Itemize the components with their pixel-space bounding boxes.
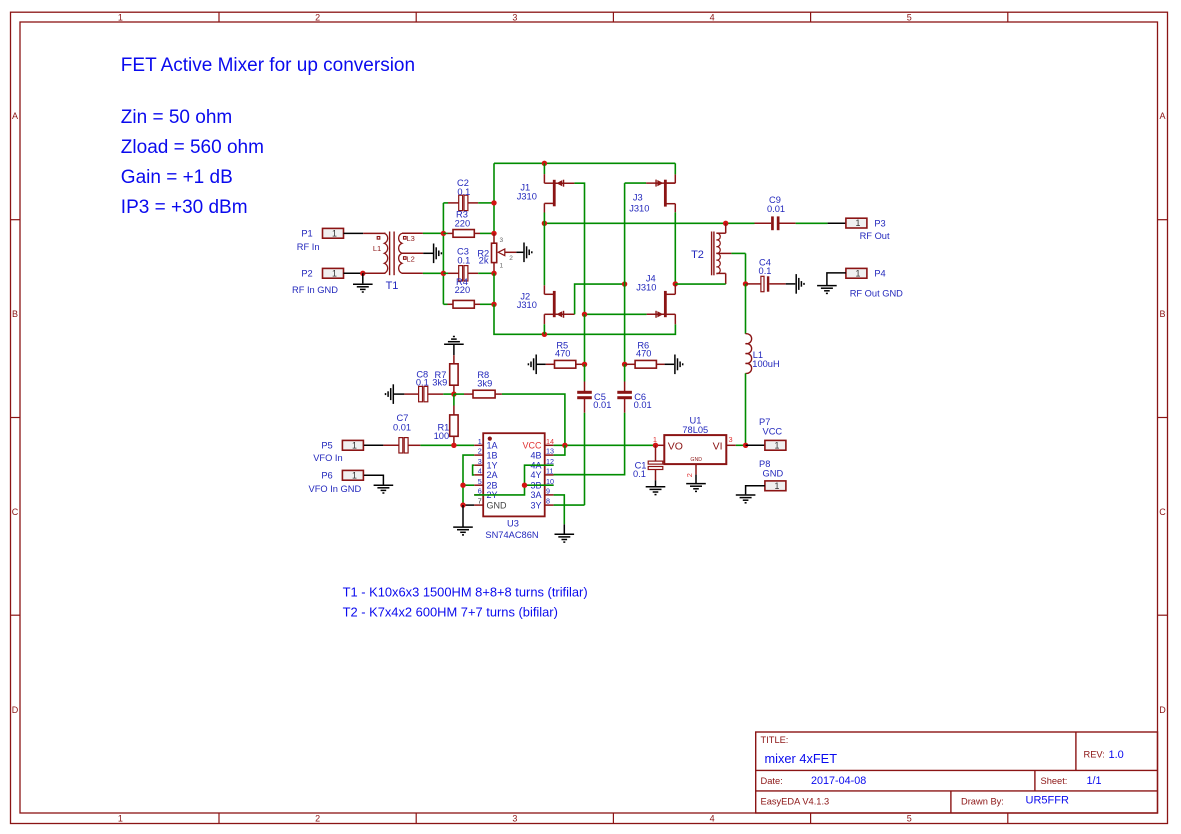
node J1 drain rail [542,161,547,166]
svg-text:220: 220 [455,219,471,229]
wire P4 to ground [827,273,846,285]
svg-text:0.01: 0.01 [767,204,785,214]
wire J4 source [674,314,676,324]
svg-text:2: 2 [315,12,320,22]
svg-text:2: 2 [315,813,320,823]
node J1-J4 gate junction [582,312,587,317]
svg-text:P3: P3 [874,219,885,229]
node J3-source J4-drain T2-bottom [673,281,678,286]
wire bottom rail [494,304,675,334]
svg-text:100: 100 [434,431,450,441]
svg-text:1: 1 [118,12,123,22]
node R3-right R2-3 [491,231,496,236]
wire R1 bottom [453,436,455,445]
node B T1-bot C3 [441,271,446,276]
svg-text:0.1: 0.1 [759,266,772,276]
wire C9 left [755,222,772,224]
svg-text:4: 4 [710,813,715,823]
wire J2J3 gate column [624,183,626,364]
wire right column lower [493,273,495,304]
svg-text:1: 1 [118,813,123,823]
ground at R6 [675,355,683,375]
wire J1 gate net [574,183,584,314]
svg-text:T2: T2 [691,249,704,261]
node bias R7 R8 R1 [451,391,456,396]
svg-text:1: 1 [855,268,860,278]
svg-text:5: 5 [478,477,482,486]
wire T2 top pin [725,223,727,233]
svg-text:1: 1 [332,268,337,278]
svg-text:RF In GND: RF In GND [292,285,338,295]
svg-text:GND: GND [763,469,784,479]
svg-text:9: 9 [546,487,550,496]
svg-text:FET Active Mixer for up conver: FET Active Mixer for up conversion [121,55,415,76]
ground at C1 [646,487,666,495]
svg-text:P5: P5 [321,440,332,450]
svg-text:2B: 2B [487,480,498,490]
wire U1 VI to P7 [736,444,746,446]
ground at R2 wiper [516,251,523,253]
svg-text:100uH: 100uH [752,359,779,369]
wire R3 left [443,232,447,234]
potentiometer R2 [493,233,495,243]
wire T2 center tap [731,252,745,254]
resistor R1 [453,394,455,405]
capacitor C4 [761,276,764,291]
transistor J2 [553,291,556,317]
transistor J4 [664,291,667,317]
svg-text:1/1: 1/1 [1087,775,1102,787]
svg-text:1: 1 [653,435,657,444]
node U3 3B junction [522,483,527,488]
svg-text:T1: T1 [386,280,399,292]
svg-text:1: 1 [332,228,337,238]
svg-text:SN74AC86N: SN74AC86N [485,530,538,540]
ground above R7 [444,337,464,345]
svg-text:Zload = 560 ohm: Zload = 560 ohm [121,137,264,158]
wire R5 right [576,363,585,365]
svg-text:2017-04-08: 2017-04-08 [811,775,866,787]
wire J4 drain [674,284,676,294]
wire R6 left [625,363,636,365]
svg-text:0.1: 0.1 [457,187,470,197]
svg-text:J310: J310 [629,204,649,214]
wire J1 drain [543,163,545,174]
svg-text:TITLE:: TITLE: [761,735,789,745]
svg-text:1: 1 [500,262,504,269]
svg-text:0.01: 0.01 [393,422,411,432]
svg-text:4B: 4B [530,450,541,460]
svg-text:UR5FFR: UR5FFR [1026,795,1069,807]
svg-text:13: 13 [546,447,554,456]
svg-text:VO: VO [668,440,683,452]
port P3 [846,218,867,228]
svg-text:Zin = 50 ohm: Zin = 50 ohm [121,107,232,128]
wire U3 pins 2-5-7 ground [463,455,474,505]
svg-text:P7: P7 [759,417,770,427]
wire P6 to ground [364,475,384,484]
resistor R8 [473,390,495,398]
svg-text:14: 14 [546,437,554,446]
svg-text:VCC: VCC [763,427,783,437]
wire R5 left [536,363,546,365]
svg-text:P1: P1 [301,228,312,238]
svg-text:4: 4 [478,467,482,476]
svg-text:1B: 1B [487,450,498,460]
svg-text:3k9: 3k9 [432,378,447,388]
svg-text:J310: J310 [517,191,537,201]
wire C5 bottom [584,399,586,413]
node C3-right R2-1 [491,271,496,276]
svg-text:3: 3 [729,435,733,444]
svg-text:1: 1 [774,481,779,491]
wire U3 pin14 VCC rail [554,444,656,446]
wire L1 top [745,284,747,334]
node U3 pin7 junction [460,502,465,507]
svg-text:mixer 4xFET: mixer 4xFET [765,751,838,766]
wire P8 to ground [746,486,765,495]
title block [756,732,1158,813]
svg-text:A: A [1159,111,1165,121]
svg-text:L3: L3 [407,234,415,243]
wire J2 gate net [575,284,625,314]
wire U3 1Y to 2A [473,465,475,475]
svg-text:3: 3 [500,237,504,244]
node R5 C5 gate [582,362,587,367]
svg-text:1Y: 1Y [487,460,498,470]
wire C3 left [443,272,448,274]
capacitor C5 [577,391,592,394]
ground at U3 left [462,505,464,526]
svg-text:3A: 3A [530,490,541,500]
wire J3 gate [625,182,647,184]
resistor R6 [635,360,656,368]
wire C9 to P3 [779,222,795,224]
svg-text:1: 1 [352,470,357,480]
ground at R5 [528,355,536,375]
inductor L1 [746,334,752,374]
svg-text:1: 1 [478,437,482,446]
wire R4 left [443,303,447,305]
wire P1 to T1 [344,232,364,234]
svg-text:T1 - K10x6x3 1500HM 8+8+8 turn: T1 - K10x6x3 1500HM 8+8+8 turns (trifila… [343,585,588,600]
wire R4 right [474,303,480,305]
node VCC R8 pin13 [562,443,567,448]
transistor J3 [664,180,667,207]
wire C8 left [393,393,404,395]
wire P5 to C7 [364,444,384,446]
transformer T1 [384,233,387,273]
wire R3 right [474,232,480,234]
port P5 [342,440,363,450]
wire left column [442,203,444,304]
wire U3 3A to ground [554,495,565,524]
svg-text:B: B [1159,309,1165,319]
capacitor C1 [655,445,657,461]
wire C4 left [746,283,762,285]
svg-text:VFO In: VFO In [313,453,342,463]
svg-text:L1: L1 [373,244,381,253]
svg-text:1A: 1A [487,441,498,451]
svg-text:5: 5 [907,12,912,22]
wire U3 pin13 to VCC [554,445,565,455]
wire C6 top [624,364,626,381]
svg-text:P8: P8 [759,459,770,469]
wire J3 source [674,204,676,213]
svg-text:C: C [12,507,19,517]
wire T2 bottom pin [725,273,727,284]
svg-text:0.1: 0.1 [416,378,429,388]
svg-text:J3: J3 [633,193,643,203]
svg-text:78L05: 78L05 [682,425,708,435]
wire J1 source [543,203,545,212]
capacitor C8 [419,386,423,401]
wire T1 bottom to node [423,272,444,274]
wire J2 source [543,314,545,324]
wire to R8 [454,393,464,395]
svg-text:RF Out GND: RF Out GND [850,289,903,299]
svg-text:D: D [12,705,19,715]
wire T1 top to node [423,232,444,234]
resistor R3 [453,230,474,238]
svg-text:220: 220 [455,285,471,295]
node U1 VI L1 P7 [743,443,748,448]
IC U3 SN74AC86N [483,433,545,516]
transformer T2 [711,232,713,276]
wire T2 bottom to J4 [675,283,725,285]
svg-text:C: C [1159,507,1166,517]
svg-text:Date:: Date: [761,776,783,786]
svg-text:GND: GND [690,457,702,463]
svg-text:3k9: 3k9 [477,379,492,389]
svg-text:3: 3 [478,457,482,466]
svg-text:3Y: 3Y [530,500,541,510]
wire C2 right [468,202,479,204]
node A T1-top R3 C2 [441,231,446,236]
node J1-source J2-drain [542,221,547,226]
resistor R7 [453,355,455,364]
svg-text:4: 4 [710,12,715,22]
svg-text:P4: P4 [874,269,885,279]
svg-text:0.01: 0.01 [634,400,652,410]
wire junction to T1 [363,272,386,274]
svg-text:VI: VI [713,440,723,452]
svg-text:470: 470 [636,349,652,359]
wire P2 to junction [344,272,363,274]
wire top rail [494,162,675,164]
ground at C4 [796,274,804,294]
wire J4 gate [585,313,647,315]
svg-text:1: 1 [855,218,860,228]
node P2 junction [360,271,365,276]
svg-text:IP3 = +30 dBm: IP3 = +30 dBm [121,197,248,218]
capacitor C9 [771,216,774,230]
ground at P6 [374,485,394,493]
svg-text:VCC: VCC [522,441,542,451]
node J2 source rail [542,332,547,337]
svg-text:3: 3 [512,813,517,823]
wire middle rail [544,222,754,224]
wire C4 right [769,283,785,285]
svg-text:Drawn By:: Drawn By: [961,796,1004,806]
wire C1 to ground [655,470,657,480]
port P7 [765,440,786,450]
capacitor C7 [399,438,403,453]
node C7 R1 U3pin1 [451,443,456,448]
svg-text:3: 3 [512,12,517,22]
svg-text:P6: P6 [321,470,332,480]
svg-text:1: 1 [352,440,357,450]
wire C2 left [443,202,448,204]
capacitor C6 [617,391,632,394]
wire R6 right [656,363,664,365]
svg-text:L2: L2 [407,254,415,263]
transistor J1 [553,180,556,207]
svg-text:11: 11 [546,467,553,476]
wire C7 right [408,444,421,446]
wire R8 to VCC [495,393,502,395]
svg-text:2: 2 [509,255,513,262]
node T2 top tap [723,221,728,226]
wire J1J4 gate column [584,314,586,364]
wire U3 2Y to 3B 4A [474,465,553,495]
wire to port P7 [746,444,765,446]
resistor R4 [453,300,474,308]
svg-text:B: B [12,309,18,319]
svg-text:5: 5 [907,813,912,823]
port P8 [765,481,786,491]
ground at P2 [362,273,364,283]
ground at C8 [386,384,394,404]
wire C3 right [468,272,479,274]
port P4 [846,268,867,278]
svg-text:8: 8 [546,497,550,506]
svg-text:J310: J310 [636,283,656,293]
wire C6 bottom [624,399,626,413]
svg-text:T2 - K7x4x2 600HM 7+7 turns (b: T2 - K7x4x2 600HM 7+7 turns (bifilar) [343,605,558,620]
node R4-right [491,302,496,307]
capacitor C2 [459,195,463,210]
capacitor C3 [459,266,463,281]
wire L1 bottom [745,373,747,445]
svg-text:Gain = +1 dB: Gain = +1 dB [121,167,233,188]
wire C5 top [584,364,586,381]
wire J2 drain [543,223,545,285]
wire U3 3Y to C5 net [554,504,585,506]
svg-text:2k: 2k [479,256,489,266]
svg-text:U3: U3 [507,519,519,529]
svg-text:2: 2 [685,473,694,477]
svg-text:0.01: 0.01 [593,400,611,410]
ground at P8 [736,495,756,503]
node R6 C6 gate [622,362,627,367]
svg-text:0.1: 0.1 [457,256,470,266]
ground at P4 [817,286,837,294]
regulator U1 78L05 [664,435,726,464]
node T2-tap C4 L1 [743,281,748,286]
svg-text:2: 2 [478,447,482,456]
svg-text:GND: GND [487,500,508,510]
svg-text:RF Out: RF Out [860,231,890,241]
svg-text:7: 7 [478,497,482,506]
node U1 VO C1 [653,443,658,448]
wire J3 drain [674,163,676,174]
wire C8 right [427,393,443,395]
ground at U3 right [555,534,575,542]
port P1 [323,228,344,238]
port P6 [342,470,363,480]
node C2-right top-rail [491,200,496,205]
svg-text:1.0: 1.0 [1109,749,1124,761]
wire U3 4Y to C6 net [554,474,585,476]
svg-text:EasyEDA V4.1.3: EasyEDA V4.1.3 [761,796,830,806]
resistor R5 [555,360,576,368]
ground at T1 center tap [423,252,433,254]
svg-text:D: D [1159,705,1166,715]
svg-text:P2: P2 [301,268,312,278]
svg-text:J310: J310 [517,300,537,310]
ground at U1 pin2 [695,475,697,483]
node U3 pin5 junction [460,483,465,488]
svg-text:2A: 2A [487,470,498,480]
node J2-J3 gate junction [622,281,627,286]
svg-text:REV:: REV: [1084,750,1105,760]
svg-text:VFO In GND: VFO In GND [309,484,362,494]
svg-text:1: 1 [774,440,779,450]
port P2 [323,268,344,278]
svg-text:0.1: 0.1 [633,469,646,479]
svg-text:A: A [12,111,18,121]
wire R7 bottom [453,385,455,394]
svg-text:RF In: RF In [297,242,320,252]
svg-text:Sheet:: Sheet: [1041,776,1068,786]
svg-text:4Y: 4Y [530,470,541,480]
wire right column upper [493,163,495,233]
svg-text:470: 470 [555,349,571,359]
